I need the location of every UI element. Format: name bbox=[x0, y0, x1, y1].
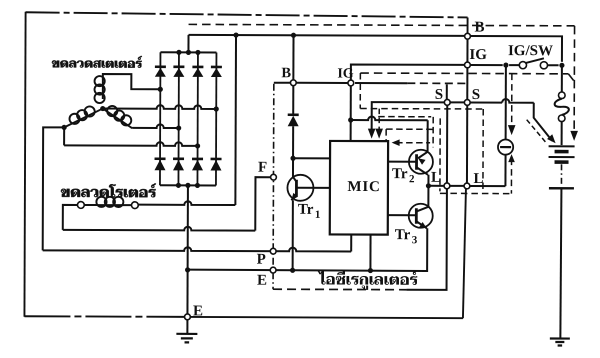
svg-text:1: 1 bbox=[315, 209, 321, 221]
IC regulator box bottom edge (dashed) bbox=[273, 288, 406, 291]
diode D6 (bottom row) bbox=[173, 158, 184, 161]
wire B to IG link bbox=[297, 82, 348, 84]
diode D3 (top row) bbox=[192, 66, 203, 69]
dashed flow arrow into MIC bbox=[378, 109, 380, 131]
rotor slip ring right bbox=[131, 202, 138, 209]
IC regulator label (Thai: IC regulator) bbox=[318, 270, 418, 290]
junction E line / Tr1 emitter bbox=[290, 268, 295, 273]
svg-text:IG: IG bbox=[469, 47, 487, 63]
wire E riser from bottom bus to case ground bbox=[186, 185, 188, 313]
flow path Tr2 branch (dashed vertical) bbox=[439, 118, 441, 191]
junction switch / B wire / fuse bbox=[559, 63, 564, 68]
terminal IG (regulator) node bbox=[348, 80, 354, 86]
terminal P node bbox=[270, 248, 276, 254]
rectifier column 2 wire bbox=[177, 52, 180, 185]
charge warning lamp bbox=[498, 139, 513, 154]
wire B+ line to B terminal bbox=[189, 35, 465, 36]
flow path IG (dashed horizontal) bbox=[360, 72, 568, 75]
wire junction to MIC left pin 1 bbox=[293, 157, 330, 159]
wire F line to F terminal (hops E riser) bbox=[63, 226, 256, 230]
wire lamp top to IG/SW line bbox=[505, 65, 507, 139]
diode D9 (regulator) bbox=[288, 113, 299, 116]
svg-text:2: 2 bbox=[409, 173, 415, 185]
wire Tr3 emitter down to E line corner bbox=[422, 228, 427, 271]
wire B to IG (case column) bbox=[466, 39, 468, 61]
terminal B (regulator) node bbox=[290, 80, 296, 86]
wire rotor right to B+ line (hops E riser) bbox=[138, 201, 235, 205]
IC block MIC bbox=[330, 141, 388, 235]
alternator case frame top-right drop to B terminal bbox=[467, 17, 469, 33]
svg-text:E: E bbox=[193, 303, 203, 319]
Tr2 collector wire to L junction bbox=[416, 167, 428, 175]
junction bottom bus / riser bbox=[185, 183, 190, 188]
Tr3 base wire from MIC bbox=[388, 214, 416, 216]
diode D4 (top row) bbox=[211, 66, 222, 69]
flow path above Tr2 (dashed) bbox=[378, 116, 431, 118]
diode D5 (bottom row) bbox=[155, 157, 166, 160]
flow path B+ to battery (dashed, top) bbox=[189, 24, 575, 25]
rectifier bottom bus bbox=[160, 184, 216, 186]
junction bottom bus / col3 bbox=[195, 183, 200, 188]
diode D2 (top row) bbox=[173, 66, 184, 69]
alternator case frame left edge bbox=[24, 12, 25, 317]
wire E line from riser junction to Tr3 bbox=[188, 270, 427, 271]
svg-text:Tr: Tr bbox=[395, 227, 411, 243]
IC regulator box bottom-right solid run bbox=[407, 189, 447, 290]
terminal S (regulator) node bbox=[444, 99, 450, 105]
battery plate long 2 bbox=[549, 156, 575, 158]
wire switch to fuse node bbox=[547, 64, 558, 66]
Tr2 emitter wire with arrow (top) bbox=[418, 152, 428, 159]
S sense arrowhead at battery bbox=[547, 134, 556, 143]
ground symbol (battery) bbox=[550, 337, 570, 339]
junction B+ line / rotor feed bbox=[233, 32, 238, 37]
transistor Tr1 body bbox=[287, 175, 313, 201]
battery bottom plate bbox=[549, 187, 574, 189]
wire S-S link bbox=[450, 101, 464, 103]
svg-text:S: S bbox=[472, 87, 480, 103]
junction B+ line / regulator B branch bbox=[291, 33, 296, 38]
fusible link top node bbox=[558, 92, 565, 99]
svg-text:B: B bbox=[281, 65, 291, 81]
ground symbol (alternator case) bbox=[176, 333, 197, 335]
battery positive plate bbox=[549, 145, 575, 147]
fusible link body bbox=[555, 99, 569, 115]
wire IG node down to MIC top bbox=[350, 86, 352, 141]
svg-text:Tr: Tr bbox=[298, 202, 314, 218]
terminal IG (case) node bbox=[464, 62, 470, 68]
rotor label (Thai: rotor coil) bbox=[61, 183, 156, 197]
transistor Tr3 body bbox=[409, 204, 433, 228]
junction top bus / col2 bbox=[176, 50, 181, 55]
stator phase-3 coil (down-right) bbox=[103, 109, 133, 129]
Tr1 emitter wire with arrow bbox=[291, 194, 296, 201]
wire neutral line A to column 4 (hops cols 1-3) bbox=[103, 105, 217, 109]
flow path IG drop to MIC (dashed) bbox=[359, 73, 361, 108]
flow path lamp to L (dashed) bbox=[510, 159, 512, 194]
junction phase-1 / column 1 bbox=[158, 87, 163, 92]
transistor Tr2 body bbox=[409, 150, 433, 174]
junction lamp / IG wire bbox=[503, 62, 508, 67]
rotor field coil bbox=[84, 204, 98, 206]
wire B terminal to switch junction bbox=[471, 36, 562, 62]
junction L line / Tr2-Tr3 bbox=[426, 183, 431, 188]
wire Tr1 emitter down to E line bbox=[292, 200, 294, 270]
svg-text:L: L bbox=[473, 171, 483, 187]
Tr3 emitter wire with arrow bbox=[416, 221, 427, 228]
junction top bus / riser bbox=[186, 50, 191, 55]
Tr3 collector wire from L junction bbox=[417, 186, 429, 212]
terminal B (case) node bbox=[465, 33, 471, 39]
junction MIC pin / E line bbox=[368, 268, 373, 273]
wire B node down to diode bbox=[292, 86, 294, 115]
wire S line into MIC with arrow bbox=[372, 102, 444, 131]
Tr1 collector wire bbox=[293, 158, 297, 182]
junction Tr1 collector / MIC pin bbox=[290, 156, 295, 161]
flow path lamp feed (dashed) bbox=[511, 74, 513, 128]
svg-text:3: 3 bbox=[412, 234, 418, 246]
junction top bus / col3 bbox=[195, 50, 200, 55]
wire L line lamp to Tr junction bbox=[428, 185, 443, 187]
junction IG wire / Tr2 feed bbox=[348, 117, 353, 122]
alternator case frame top edge (dash-dot) bbox=[26, 12, 468, 17]
svg-text:F: F bbox=[258, 160, 267, 176]
MIC bottom pin to P line bbox=[350, 235, 352, 252]
wire E node to ground stem bbox=[186, 320, 188, 333]
junction line C / column 3 bbox=[195, 143, 200, 148]
stator neutral node bbox=[100, 106, 105, 111]
terminal F node bbox=[271, 174, 277, 180]
flow arrow into MIC from Tr2 loop (dashed) bbox=[396, 142, 430, 144]
wire B+ line down to B node bbox=[292, 35, 294, 79]
svg-text:B: B bbox=[475, 19, 485, 35]
terminal E (case) node bbox=[185, 314, 191, 320]
wire junction down to fusible link bbox=[561, 65, 563, 92]
wire lamp bottom to L line bbox=[504, 155, 506, 186]
wire fusible link to battery bbox=[561, 122, 563, 145]
wire stator left node to P-line (left drop) bbox=[43, 127, 64, 250]
battery cell continuation (dash-dot) bbox=[560, 164, 562, 185]
svg-text:MIC: MIC bbox=[347, 179, 380, 195]
wire S to L (case column) bbox=[466, 106, 468, 183]
wire phase-3 line B to column 2 (hops col 1) bbox=[132, 124, 179, 128]
junction bottom bus / col2 bbox=[176, 183, 181, 188]
wire rotor left to F line bbox=[63, 205, 78, 230]
MIC bottom pin to E line bbox=[369, 235, 371, 271]
flow arrow out of lamp (up) bbox=[508, 154, 515, 162]
terminal L (regulator) node bbox=[444, 183, 450, 189]
diode D1 (top row) bbox=[155, 65, 166, 68]
wire IG node up and right to case IG terminal bbox=[351, 65, 464, 81]
wire S sense to battery (diagonal) bbox=[470, 101, 502, 103]
wire battery to ground bbox=[560, 188, 561, 339]
stator phase-1 wire to rectifier column 1 bbox=[103, 74, 161, 89]
Tr1 base bar bbox=[295, 180, 298, 196]
flow path right drop (dashed) bbox=[482, 109, 484, 193]
wire B+ riser from top bus bbox=[187, 35, 189, 52]
junction line B / column 2 bbox=[176, 125, 181, 130]
diode D8 (bottom row) bbox=[211, 158, 222, 161]
svg-text:S: S bbox=[435, 87, 443, 103]
svg-text:P: P bbox=[257, 252, 266, 268]
stator phase-1 coil (vertical) bbox=[102, 80, 104, 99]
stator left node bbox=[62, 125, 67, 130]
IC regulator box left edge (dash-dot) bbox=[272, 84, 275, 289]
wire phase-2 line C to column 3 (hops cols 1-2) bbox=[63, 127, 65, 145]
Tr3 base bar bbox=[415, 208, 418, 223]
wire B node stub to box corner bbox=[274, 82, 290, 84]
stator phase-2 coil (down-left) bbox=[64, 108, 103, 127]
flow arrow into battery (right) bbox=[570, 131, 578, 141]
battery negative plate 2 bbox=[555, 160, 569, 164]
rotor slip ring left bbox=[77, 202, 84, 209]
terminal S (case) node bbox=[464, 100, 470, 106]
svg-text:IG/SW: IG/SW bbox=[508, 43, 553, 59]
junction E riser / E line bbox=[185, 267, 190, 272]
wire IG to S (case column) bbox=[466, 68, 468, 99]
battery negative plate 1 bbox=[555, 150, 569, 154]
IC regulator box top edge (solid then dashed) bbox=[355, 82, 407, 84]
rectifier top bus bbox=[160, 51, 216, 53]
Tr1 base wire from MIC bbox=[296, 187, 329, 189]
Tr2 base bar bbox=[415, 154, 418, 169]
rectifier column 4 wire bbox=[215, 52, 218, 185]
junction line A / column 4 bbox=[214, 106, 219, 111]
svg-text:Tr: Tr bbox=[392, 166, 408, 182]
svg-text:E: E bbox=[257, 273, 267, 289]
wire P line from stator tap to MIC (hops E riser and Tr1 drop) bbox=[43, 247, 352, 252]
wire to switch contact bbox=[509, 64, 519, 66]
flow path along S into MIC (dashed) bbox=[360, 108, 483, 110]
flow path S sense diagonal (dashed) bbox=[527, 120, 547, 143]
wire diode to Tr1 collector junction bbox=[292, 126, 294, 158]
ignition switch IG/SW bbox=[519, 62, 526, 69]
alternator case frame bottom edge (dash-dot) bbox=[24, 315, 184, 318]
fusible link bottom node bbox=[558, 115, 565, 122]
wire IG to Tr2 collector (hops S drop) bbox=[351, 116, 428, 120]
alternator case frame right edge below L bbox=[463, 189, 466, 318]
rectifier column 1 wire bbox=[159, 52, 162, 185]
rectifier column 3 wire bbox=[196, 52, 199, 185]
wire IG terminal to switch bbox=[471, 64, 503, 66]
stator label (Thai: stator coil) bbox=[52, 56, 142, 68]
Tr2 base wire from MIC bbox=[388, 161, 416, 163]
terminal E node (regulator) bbox=[270, 267, 276, 273]
diode D7 (bottom row) bbox=[192, 158, 203, 161]
terminal L (case) node bbox=[464, 183, 470, 189]
flow arrow into lamp bbox=[508, 125, 516, 135]
wire S (regulator) down to L (regulator) bbox=[446, 106, 448, 183]
